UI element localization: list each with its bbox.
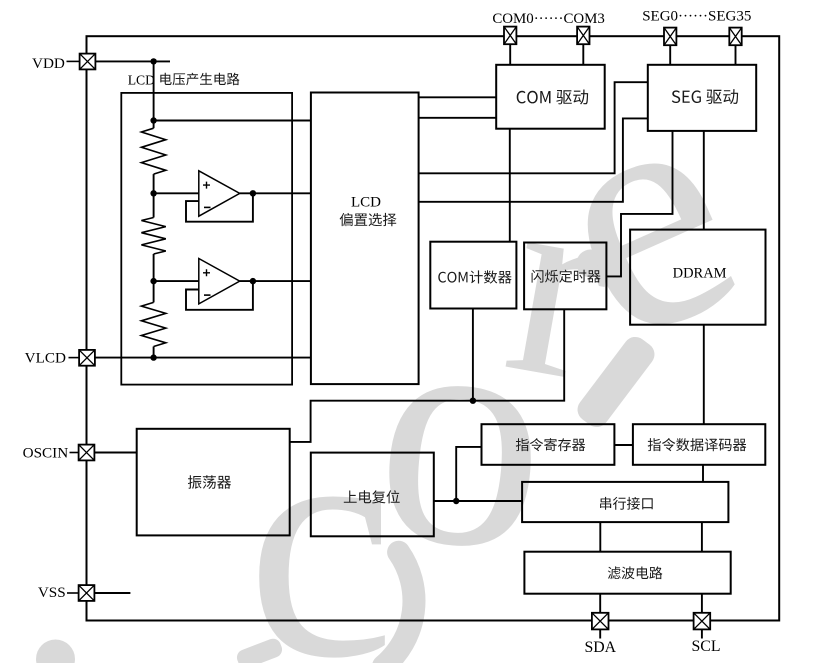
block serial interface (522, 482, 728, 522)
junction clock rail (470, 398, 476, 404)
junction node C (150, 278, 156, 284)
resistor R3 (141, 302, 165, 346)
wire COM driver to COM counter (509, 129, 511, 242)
wire bias to COM driver upper (419, 96, 497, 98)
pin SEG35 (729, 28, 741, 46)
pin SEG0 (664, 28, 676, 46)
wire SEG driver to blink timer (606, 131, 672, 277)
wire U1 output to bias select (240, 192, 311, 194)
wire COM counter down (472, 309, 474, 401)
wire SCL external stub (701, 629, 703, 638)
svg-text:VDD: VDD (32, 55, 65, 72)
block LCD voltage generator box (121, 93, 292, 385)
wire filter to SDA pin (599, 594, 601, 613)
svg-text:OSCIN: OSCIN (23, 444, 69, 461)
chip outline (87, 36, 780, 620)
watermark (36, 146, 745, 663)
pin SCL (694, 613, 711, 630)
block power-on reset (311, 453, 434, 537)
wire node C to U2 input (154, 280, 199, 282)
block LCD bias select (311, 93, 419, 385)
wire R3 bottom lead (153, 347, 155, 358)
pin VLCD (25, 349, 95, 366)
junction U1 output (250, 190, 256, 196)
wire COM3 stub (582, 44, 584, 65)
pin SDA (592, 613, 609, 630)
wire VLCD rail (95, 357, 311, 359)
pin COM3 (577, 27, 589, 45)
wire bias to SEG driver upper (419, 82, 648, 173)
op-amp U1 feedback wire (186, 193, 253, 221)
wire R2-R3 node C (153, 254, 155, 302)
wire R1-R2 node B (153, 174, 155, 217)
wire SEG0 stub (669, 45, 671, 65)
block COM counter (430, 242, 516, 309)
pin OSCIN (23, 444, 95, 461)
wire OSCIN stub (94, 452, 137, 454)
junction node A (VDD rail) (150, 58, 156, 64)
wire COM0 stub (509, 44, 511, 65)
op-amp U1 (199, 171, 240, 216)
junction U2 output (250, 278, 256, 284)
pin VDD (32, 54, 95, 72)
block command data decoder (633, 424, 765, 465)
wire ladder top rail to bias select (154, 120, 311, 122)
pin VSS (38, 584, 95, 601)
junction node D (453, 498, 459, 504)
block blink timer (524, 243, 606, 310)
resistor R2 (141, 218, 165, 255)
svg-text:LCD: LCD (351, 194, 381, 210)
wire SDA external stub (599, 629, 601, 638)
wire U2 output to bias select (240, 280, 311, 282)
op-amp U2 (199, 259, 240, 304)
block oscillator (137, 429, 290, 536)
wire bias to COM driver lower (419, 117, 497, 119)
svg-text:SEG0······SEG35: SEG0······SEG35 (642, 9, 751, 25)
wire node A down to ladder (153, 61, 155, 120)
svg-text:COM0······COM3: COM0······COM3 (492, 11, 605, 27)
svg-text:DDRAM: DDRAM (673, 265, 727, 281)
block SEG driver (648, 65, 756, 131)
wire node D to command register (456, 447, 481, 501)
op-amp U2 feedback wire (186, 281, 253, 310)
wire VDD to node A (96, 60, 171, 62)
pin COM0 (504, 27, 516, 45)
wire decoder to serial interface (702, 465, 704, 482)
wire DDRAM to command data decoder (703, 325, 705, 425)
svg-text:VSS: VSS (38, 584, 66, 601)
block COM driver (496, 65, 605, 129)
junction node B (150, 190, 156, 196)
wire SEG driver to DDRAM (703, 131, 705, 230)
wire R1 top lead (153, 121, 155, 129)
svg-text:SDA: SDA (584, 639, 616, 656)
block command register (482, 424, 615, 465)
wire serial to filter left (599, 522, 601, 552)
resistor R1 (141, 128, 165, 174)
svg-text:VLCD: VLCD (25, 349, 66, 366)
wire POR to node D (434, 500, 522, 502)
wire bias to SEG driver lower (419, 118, 648, 201)
wire VSS stub (94, 592, 130, 594)
block filter circuit (524, 552, 730, 594)
wire SEG35 stub (735, 45, 737, 65)
wire node B to U1 input (154, 192, 199, 194)
wire register to decoder (614, 444, 633, 446)
svg-text:LCD: LCD (128, 72, 155, 87)
junction ladder top (150, 117, 156, 123)
wire serial to filter right (701, 522, 703, 552)
block DDRAM (630, 230, 765, 325)
wire filter to SCL pin (701, 594, 703, 613)
svg-text:SCL: SCL (692, 638, 721, 655)
junction VLCD rail (150, 354, 156, 360)
wire blink timer down and clock rail (290, 309, 565, 442)
label LCD voltage generator (128, 72, 240, 87)
